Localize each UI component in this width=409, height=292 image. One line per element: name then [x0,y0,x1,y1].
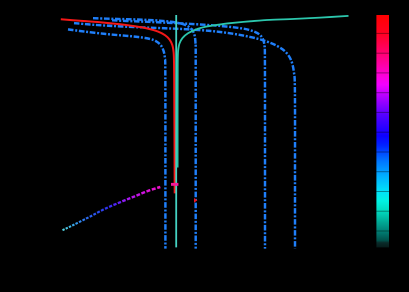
diagonal gradient dashed line [63,229,65,230]
red triangle marker [194,198,197,203]
blue dash-dot curve 4 [74,23,295,249]
blue dash-dot curve 1 [68,29,165,248]
colorbar [376,15,389,247]
blue dash-dot curve 2 [93,18,196,248]
cyan vertical line [175,15,177,247]
magenta bar marker [171,183,178,186]
red solid curve [61,19,175,193]
colorbar ticks [376,32,389,34]
blue dash-dot curve 3 [112,20,265,248]
teal solid curve [178,16,349,168]
